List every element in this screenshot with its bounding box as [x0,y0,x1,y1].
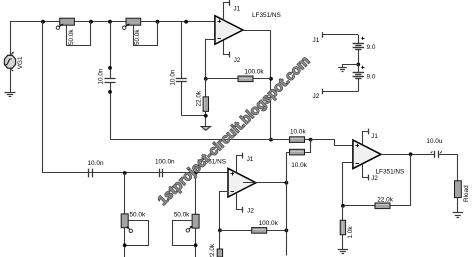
svg-text:10.0u: 10.0u [426,138,442,145]
svg-text:9.0: 9.0 [367,44,376,51]
svg-text:50.0k: 50.0k [134,29,141,45]
svg-text:J2: J2 [371,175,378,182]
svg-text:J2: J2 [313,93,320,100]
svg-text:22.0k: 22.0k [377,196,393,203]
svg-text:10.0k: 10.0k [291,162,307,169]
svg-text:J2: J2 [234,57,241,64]
svg-text:VG1: VG1 [17,56,24,69]
svg-text:9.0: 9.0 [367,74,376,81]
svg-text:LF351/NS: LF351/NS [376,169,405,176]
svg-text:50.0k: 50.0k [130,211,146,218]
svg-text:J2: J2 [247,208,254,215]
svg-text:10.0n: 10.0n [88,160,104,167]
svg-text:J1: J1 [234,6,241,13]
svg-text:10.0k: 10.0k [290,128,306,135]
svg-text:22.0k: 22.0k [209,243,216,257]
svg-text:LF351/NS: LF351/NS [252,12,281,19]
svg-text:10.0n: 10.0n [169,69,176,85]
svg-text:100.0k: 100.0k [244,69,264,76]
svg-text:10.0n: 10.0n [97,68,104,84]
svg-text:J1: J1 [247,156,254,163]
svg-text:1.0k: 1.0k [347,226,354,239]
svg-text:Rload: Rload [463,185,470,202]
svg-text:50.0k: 50.0k [174,211,190,218]
svg-text:22.0k: 22.0k [196,90,203,106]
svg-text:100.0k: 100.0k [259,220,279,227]
svg-text:J1: J1 [371,133,378,140]
svg-text:J1: J1 [313,37,320,44]
svg-text:100.0n: 100.0n [155,159,175,166]
svg-text:50.0k: 50.0k [68,29,75,45]
